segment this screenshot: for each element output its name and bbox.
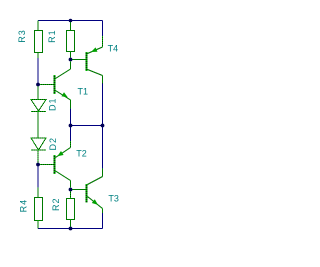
- svg-text:D2: D2: [48, 137, 58, 151]
- svg-text:D1: D1: [48, 97, 58, 111]
- svg-text:R2: R2: [51, 197, 61, 211]
- svg-text:T4: T4: [108, 43, 119, 53]
- svg-text:R3: R3: [17, 29, 27, 43]
- svg-text:R1: R1: [47, 29, 57, 43]
- svg-text:R4: R4: [18, 199, 28, 213]
- svg-text:T2: T2: [76, 148, 87, 158]
- svg-text:T3: T3: [108, 193, 119, 203]
- svg-text:T1: T1: [78, 86, 89, 96]
